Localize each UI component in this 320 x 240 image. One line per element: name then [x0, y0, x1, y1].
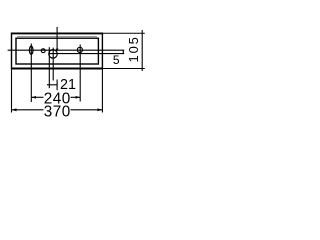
faint inner seam line near top	[17, 36, 97, 38]
right hole center mark / extension to 240 dim	[79, 45, 81, 102]
21 dimension bar	[47, 84, 57, 86]
370 dimension line left segment with arrow	[12, 109, 44, 111]
horizontal centerline	[8, 49, 125, 51]
370 right extension line	[101, 70, 103, 113]
svg-text:5: 5	[113, 53, 120, 67]
21 dim right extension bar	[56, 80, 58, 91]
slot center mark / extension line down to 240 dim	[30, 44, 32, 103]
small screw hole circle	[41, 49, 45, 53]
370 dimension line right segment with arrow	[71, 109, 103, 111]
lower offset line (5mm)	[49, 53, 124, 55]
240 dimension line right segment with arrow	[71, 96, 81, 98]
mounting slot ellipse	[29, 46, 33, 54]
bottom edge extension line to 105 dim	[102, 68, 144, 70]
5 dim connector	[122, 50, 124, 53]
fixture inner panel rectangle	[16, 38, 98, 64]
large knockout hole circle	[49, 50, 58, 59]
105 dimension line	[141, 30, 143, 71]
240 dimension line left segment with arrow	[31, 96, 43, 98]
large hole center mark extension line	[52, 48, 54, 81]
fixture outer body rectangle	[12, 33, 103, 70]
top edge extension line to 105 dim	[102, 32, 144, 34]
svg-text:370: 370	[44, 103, 71, 120]
21 dim left extension line	[48, 47, 50, 88]
svg-text:105: 105	[126, 35, 141, 62]
right screw hole circle	[77, 47, 82, 52]
370 left extension line	[11, 70, 13, 113]
leader line from top	[56, 27, 58, 49]
